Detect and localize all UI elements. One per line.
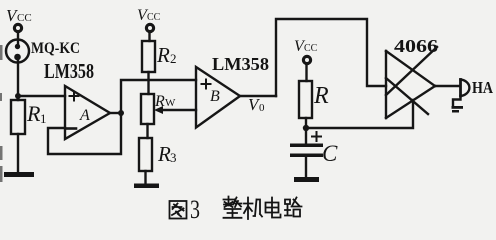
wire RW to R3 [146,124,148,138]
wire sensor to node A [17,60,19,96]
svg-text:R: R [157,142,171,166]
svg-text:2: 2 [170,51,177,66]
VCC terminal (timer) [303,56,310,63]
wire C to ground [305,157,307,178]
wire op-amp B output [240,95,276,97]
wire terminal to R2 [148,33,150,41]
wire RW wiper to op-amp B minus input [158,109,196,111]
wire op-amp A output [110,112,121,114]
svg-text:B: B [210,88,220,105]
svg-text:R: R [154,93,165,110]
svg-text:CC: CC [147,12,161,23]
op-amp U1 B [196,67,240,128]
label V0 [248,95,265,114]
svg-text:1: 1 [40,111,47,126]
ground (R3) [134,184,159,189]
resistor R1 [11,100,25,134]
ground (C) [294,177,319,182]
label R1 [26,101,47,126]
wire R to node B [305,118,307,144]
wire R2 to RW [147,72,149,94]
op-amp A plus input sign [70,92,79,101]
label RW [154,93,176,110]
svg-text:CC: CC [17,12,32,24]
buzzer HA [461,80,470,97]
capacitor C [290,144,323,158]
svg-text:R: R [156,43,170,67]
wire R1 to ground [17,134,19,173]
svg-text:C: C [322,141,338,166]
label R3 [157,142,177,166]
svg-text:R: R [313,83,329,109]
resistor R3 [139,138,152,171]
wire node A to R1 [17,96,19,100]
wire node B to 4066 control [306,100,413,128]
label R2 [156,43,177,67]
wire R3 to ground [144,171,146,183]
resistor R2 [142,41,155,72]
svg-text:R: R [26,101,41,126]
ground (HA) [452,106,464,113]
op-amp A minus input sign [67,127,76,130]
char 路 [285,198,302,217]
op-amp U1 A [65,86,110,139]
RW wiper arrowhead [154,106,163,114]
wire B output to 4066 input [276,19,386,96]
svg-text:3: 3 [170,150,177,165]
node B junction dot [303,125,309,131]
analog switch 4066 [386,47,437,118]
char 电 [266,198,281,218]
wire terminal to R [305,65,307,81]
VCC terminal (sensor) [14,24,21,31]
svg-text:LM358: LM358 [44,59,94,83]
svg-text:MQ-KC: MQ-KC [31,40,80,57]
char 图 [170,201,187,219]
svg-text:3: 3 [190,195,200,224]
svg-text:A: A [79,107,90,124]
VCC label (divider) [137,7,161,24]
svg-text:CC: CC [304,43,318,54]
scan artifacts left edge [0,45,3,182]
capacitor C plus sign [312,132,321,141]
svg-text:LM358: LM358 [212,54,269,74]
wire 4066 output to HA [435,85,459,87]
wire feedback A (output to minus input) and A output up to B [48,80,196,154]
wire node A to op-amp A + input [18,95,65,97]
ground (R1) [4,172,34,177]
VCC label (timer) [294,38,318,55]
char 整 [224,197,242,218]
node op-amp A output junction dot [118,110,124,116]
node A junction dot [15,93,21,99]
svg-text:0: 0 [259,102,265,114]
svg-text:W: W [165,97,176,109]
wire HA to ground [453,96,461,106]
gas sensor MQ-KC [6,40,29,63]
potentiometer RW [141,94,154,124]
VCC terminal (divider) [146,24,153,31]
resistor R [299,81,312,118]
caption 图 3 整机电路 [170,195,302,224]
wire terminal to sensor [17,33,19,45]
VCC label (sensor supply) [6,6,32,25]
op-amp B plus input sign [202,80,211,89]
svg-text:HA: HA [472,78,494,97]
char 机 [244,198,262,220]
